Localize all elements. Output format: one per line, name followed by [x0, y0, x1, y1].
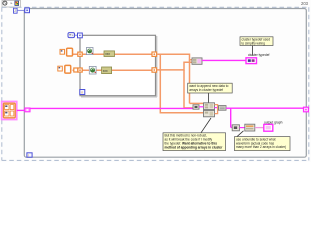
- wire row2 to bundle and down: [157, 62, 193, 108]
- feeder node (blue rounded): [68, 33, 75, 38]
- wire constant to tunnel: [17, 9, 25, 11]
- svg-text:cluster typedef: cluster typedef: [248, 53, 270, 57]
- magenta wire into node C: [231, 126, 233, 128]
- note2 want to append: [188, 83, 233, 93]
- row1 array control: [60, 48, 73, 56]
- wire node C to node D: [239, 127, 244, 129]
- row2 exit tunnel: [152, 68, 157, 72]
- right edge tunnel: [304, 107, 309, 112]
- structure tunnel (top-left, blue): [78, 33, 83, 38]
- svg-text:2: 2: [14, 9, 16, 13]
- row2 wire: [73, 69, 102, 71]
- svg-text:203: 203: [301, 1, 309, 6]
- magenta branch down: [230, 108, 232, 127]
- note1 pointer: [252, 46, 254, 56]
- note3 pointer: [201, 118, 211, 133]
- row1 tunnel on structure edge: [78, 52, 82, 56]
- while loop: [24, 9, 306, 158]
- row2 olive box: [102, 67, 112, 74]
- row2 date-time icon: [89, 66, 96, 74]
- magenta wire to right edge: [226, 107, 304, 109]
- wire append wrap: [215, 105, 218, 114]
- svg-text:n: n: [81, 91, 83, 95]
- row1 exit tunnel: [152, 52, 157, 56]
- tunnel on loop corner: [25, 8, 30, 13]
- cluster typedef indicator: [246, 58, 257, 64]
- note4 use unbundle: [235, 137, 291, 151]
- svg-text:to simplify wiring: to simplify wiring: [242, 41, 266, 45]
- inner structure: [80, 35, 157, 97]
- wire node D to graph: [255, 127, 264, 129]
- svg-text:xxx: xxx: [105, 52, 110, 56]
- append node top: [204, 103, 215, 110]
- magenta wire bundle to indicator: [202, 59, 246, 61]
- bundle node: [192, 58, 202, 64]
- svg-text:arrays in cluster typedef: arrays in cluster typedef: [189, 88, 223, 92]
- pink cluster control: [2, 101, 17, 119]
- wire branch down (x160): [160, 54, 203, 112]
- row1 date-time icon: [86, 48, 93, 55]
- long magenta wire: [30, 107, 193, 109]
- note2 pointer: [208, 93, 210, 103]
- svg-text:method of appending arrays in: method of appending arrays in cluster: [165, 145, 224, 149]
- svg-text:many more than 2 arrays in clu: many more than 2 arrays in cluster): [236, 145, 286, 149]
- wire row1 to bundle and down: [157, 54, 204, 103]
- row1 olive box: [104, 51, 115, 57]
- node L (index): [193, 105, 199, 109]
- pink tunnel on loop left edge: [25, 108, 30, 112]
- note1 cluster typedef used: [240, 37, 273, 46]
- dashed window border: [2, 7, 309, 160]
- svg-text:output graph: output graph: [264, 121, 283, 125]
- i iteration terminal (while loop): [27, 153, 32, 158]
- output graph indicator: [264, 124, 273, 131]
- wire feeder to structure tunnel: [75, 34, 78, 36]
- numeric constant: [14, 8, 18, 13]
- note4 pointer: [237, 131, 244, 137]
- append node bottom: [204, 110, 215, 116]
- structure iteration terminal: [80, 90, 85, 95]
- toolbar box: [2, 1, 21, 8]
- row2 array control: [58, 65, 71, 73]
- wire control to loop tunnel: [17, 109, 25, 111]
- row1 wire: [73, 53, 105, 55]
- magenta node links: [199, 106, 204, 108]
- svg-text:xxx: xxx: [103, 69, 108, 73]
- node R (unbundle small): [219, 106, 227, 111]
- node D (unbundle): [245, 124, 255, 131]
- row2 tunnel pair on structure edge: [74, 68, 82, 72]
- node C (index array): [232, 125, 239, 131]
- note3 non-robust: [163, 133, 226, 151]
